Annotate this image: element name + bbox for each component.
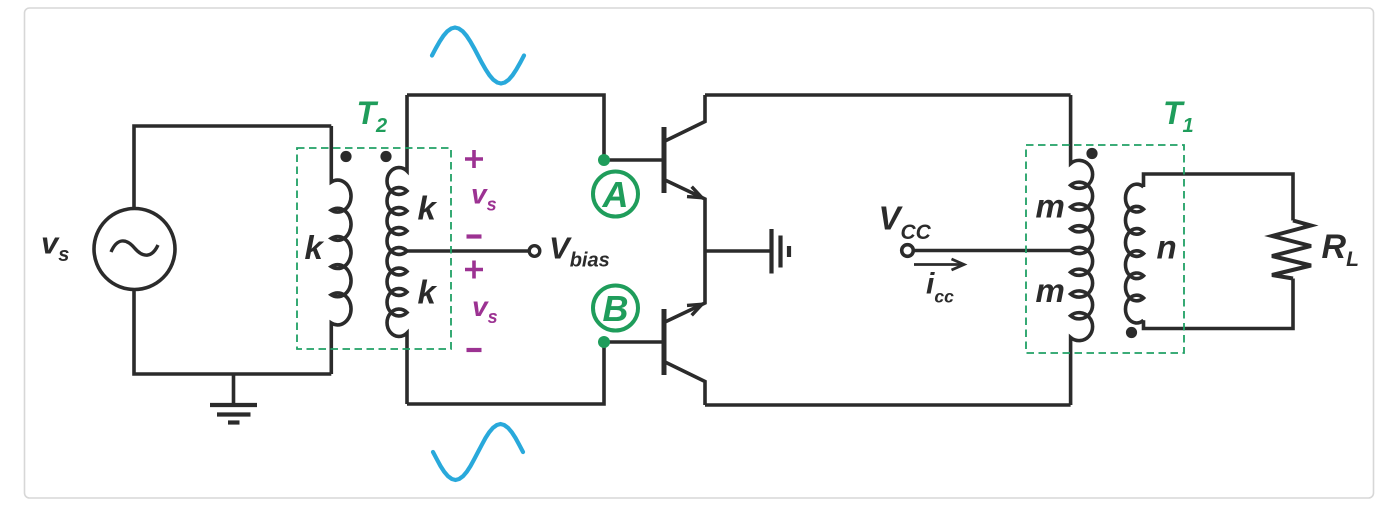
wire top rail left: [407, 95, 662, 160]
terminal Vbias: [529, 246, 540, 257]
annotation minus lower: [467, 348, 482, 352]
wire top rail right: [705, 93, 1071, 97]
transformer T1 primary winding lower m: [1071, 247, 1093, 405]
node B circle: [593, 286, 638, 331]
T1 polarity dot secondary: [1126, 327, 1137, 338]
node B dot: [598, 336, 610, 348]
svg-text:A: A: [602, 174, 629, 215]
transistor Q1 base bar: [662, 127, 667, 193]
T1 polarity dot primary: [1086, 148, 1097, 159]
transformer T2 boundary box: [297, 148, 451, 349]
transistor Q2 emitter arrow: [687, 304, 702, 315]
arrow icc: [914, 259, 964, 270]
transistor Q2 emitter: [665, 251, 705, 322]
transformer T1 boundary box: [1026, 145, 1184, 353]
resistor RL: [1272, 221, 1311, 279]
svg-text:B: B: [603, 288, 629, 329]
ground G1 bars: [210, 405, 257, 423]
transistor Q2 collector: [665, 362, 705, 405]
transistor Q1 emitter: [665, 180, 705, 251]
svg-text:k: k: [418, 190, 438, 227]
node A dot: [598, 154, 610, 166]
annotation minus upper: [467, 234, 482, 238]
svg-text:m: m: [1036, 272, 1065, 309]
svg-text:n: n: [1157, 229, 1177, 266]
T2 polarity dot secondary: [380, 151, 391, 162]
svg-text:k: k: [305, 229, 325, 266]
ground G1 stem: [232, 374, 236, 404]
wire load bottom: [1144, 279, 1294, 329]
transistor Q1 emitter arrow: [687, 187, 702, 198]
transformer T2 secondary winding lower k: [387, 248, 407, 404]
wire T2 center tap to Vbias: [407, 249, 529, 253]
transformer T1 secondary winding n: [1125, 184, 1143, 323]
transformer T2 secondary winding upper k: [387, 95, 407, 254]
wire bottom rail right: [705, 403, 1071, 407]
wire input loop top: [134, 126, 331, 209]
ac source V1: [94, 209, 175, 290]
wire emitter node to ground: [705, 249, 771, 253]
wire T1 secondary top to load: [1144, 174, 1294, 221]
transistor Q1 collector: [665, 95, 705, 141]
transformer T1 primary winding upper m: [1071, 95, 1093, 254]
annotation plus upper: [465, 150, 483, 350]
sine wave top: [432, 28, 524, 84]
node A circle: [593, 172, 638, 217]
T2 polarity dot primary: [340, 151, 351, 162]
svg-text:m: m: [1036, 188, 1065, 225]
svg-text:k: k: [418, 274, 438, 311]
terminal Vcc: [902, 245, 914, 257]
wire Vcc to T1 center tap: [914, 249, 1071, 253]
annotation plus lower: [465, 261, 483, 279]
ground G2 bars: [772, 229, 790, 274]
wire input loop bottom: [134, 290, 331, 375]
sine wave bottom: [433, 424, 523, 480]
transistor Q2 base bar: [662, 309, 667, 375]
wire bottom rail left: [407, 342, 662, 404]
transformer T2 primary winding k: [331, 126, 351, 374]
